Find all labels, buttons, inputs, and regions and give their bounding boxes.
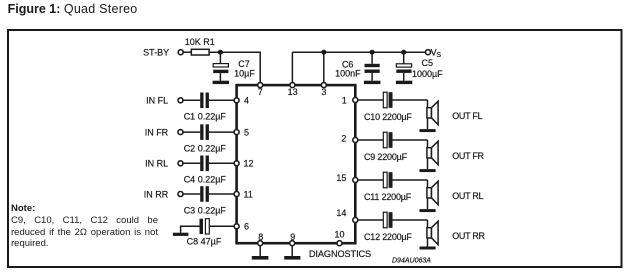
svg-text:3: 3 <box>321 87 326 97</box>
ground of OUT FL <box>420 129 436 132</box>
capacitor C10 <box>358 92 428 122</box>
terminal IN RR <box>144 189 183 199</box>
speaker OUT FL <box>427 100 483 129</box>
capacitor C11 <box>358 172 428 202</box>
svg-text:100nF: 100nF <box>335 68 361 78</box>
node C5 on rail <box>401 50 406 55</box>
capacitor C1 <box>183 93 234 122</box>
svg-text:C9 2200µF: C9 2200µF <box>364 152 408 162</box>
node C6 on rail <box>370 50 375 55</box>
svg-text:C10 2200µF: C10 2200µF <box>364 112 412 122</box>
svg-text:IN RL: IN RL <box>145 159 168 169</box>
svg-text:9: 9 <box>290 232 295 242</box>
wire VS rail <box>292 51 425 53</box>
capacitor C6 <box>335 52 380 80</box>
node pin3 riser on rail <box>321 50 326 55</box>
svg-text:OUT FR: OUT FR <box>452 151 484 161</box>
svg-text:C2 0.22µF: C2 0.22µF <box>184 143 227 153</box>
svg-text:14: 14 <box>336 208 346 218</box>
svg-text:OUT FL: OUT FL <box>452 111 482 121</box>
capacitor C5 <box>396 52 443 80</box>
svg-text:C12 2200µF: C12 2200µF <box>364 232 412 242</box>
ground of OUT RL <box>420 209 436 212</box>
ground of pin 8 <box>252 246 269 260</box>
svg-text:8: 8 <box>258 232 263 242</box>
pin 5 <box>234 127 249 137</box>
pin 14 <box>336 208 357 222</box>
svg-text:C5: C5 <box>422 58 434 68</box>
pin 2 <box>341 134 357 144</box>
ground of C7 <box>213 81 229 84</box>
ground of pin 9 <box>284 246 300 260</box>
pin 9 <box>290 232 296 246</box>
speaker OUT FR <box>427 140 485 169</box>
svg-text:C1 0.22µF: C1 0.22µF <box>184 112 227 122</box>
svg-text:S: S <box>436 52 441 59</box>
svg-text:DIAGNOSTICS: DIAGNOSTICS <box>309 249 371 259</box>
node R1/C7 junction <box>218 50 223 55</box>
capacitor C9 <box>358 132 428 162</box>
pin 10 <box>334 230 344 246</box>
pin 1 <box>342 95 358 105</box>
terminal IN FR <box>145 127 183 137</box>
pin 13 <box>288 83 298 97</box>
resistor R1 <box>185 37 215 55</box>
title <box>8 2 138 16</box>
note text block <box>11 203 158 250</box>
capacitor C8 <box>187 219 234 247</box>
capacitor C12 <box>358 212 428 242</box>
pin 7 <box>258 83 263 97</box>
speaker OUT RR <box>427 220 486 247</box>
capacitor C7 <box>213 52 255 81</box>
svg-text:4: 4 <box>244 96 249 106</box>
pin 4 <box>234 96 249 106</box>
svg-text:OUT RL: OUT RL <box>452 191 483 201</box>
pin 11 <box>234 189 253 199</box>
ground of OUT FR <box>420 169 436 172</box>
terminal ST-BY <box>143 48 183 58</box>
svg-text:C8 47µF: C8 47µF <box>187 236 222 246</box>
terminal IN RL <box>145 159 183 169</box>
ground of C8 <box>173 226 200 236</box>
capacitor C3 <box>183 186 234 215</box>
svg-text:ST-BY: ST-BY <box>143 48 169 58</box>
pin 12 <box>234 159 253 169</box>
wire ST-BY to R1 <box>184 51 192 53</box>
svg-text:2: 2 <box>341 134 346 144</box>
svg-text:C4 0.22µF: C4 0.22µF <box>184 175 227 185</box>
amplifier IC U1 <box>237 85 356 243</box>
pin 6 <box>234 222 249 232</box>
svg-text:1: 1 <box>342 95 347 105</box>
svg-text:10K R1: 10K R1 <box>185 37 215 47</box>
svg-text:IN FL: IN FL <box>146 96 168 106</box>
svg-text:1000µF: 1000µF <box>412 69 443 79</box>
pin 15 <box>336 173 357 183</box>
svg-text:13: 13 <box>288 87 298 97</box>
capacitor C4 <box>183 156 234 185</box>
svg-text:5: 5 <box>244 127 249 137</box>
svg-text:IN RR: IN RR <box>144 189 169 199</box>
svg-text:11: 11 <box>244 189 253 199</box>
svg-text:OUT RR: OUT RR <box>452 231 485 241</box>
terminal VS <box>426 48 442 59</box>
svg-text:12: 12 <box>244 159 254 169</box>
svg-text:C11 2200µF: C11 2200µF <box>364 192 412 202</box>
svg-text:D94AU063A: D94AU063A <box>392 257 431 264</box>
svg-text:7: 7 <box>258 87 263 97</box>
capacitor C2 <box>183 124 234 153</box>
wire riser pin 3 <box>323 52 325 84</box>
svg-text:IN FR: IN FR <box>145 127 169 137</box>
wire R1 to pin 7 corner <box>210 52 260 84</box>
ground of C5 <box>396 81 412 84</box>
pin 3 <box>321 83 326 97</box>
ground of C6 <box>364 81 381 84</box>
speaker OUT RL <box>427 180 484 209</box>
terminal IN FL <box>146 96 183 106</box>
svg-text:C3 0.22µF: C3 0.22µF <box>184 205 227 215</box>
pin 8 <box>258 232 264 246</box>
svg-text:10µF: 10µF <box>234 68 255 78</box>
svg-text:15: 15 <box>336 173 346 183</box>
ground of OUT RR <box>420 247 436 250</box>
svg-text:10: 10 <box>334 230 344 240</box>
svg-text:6: 6 <box>244 222 249 232</box>
wire riser pin 13 to VS rail <box>291 52 293 84</box>
